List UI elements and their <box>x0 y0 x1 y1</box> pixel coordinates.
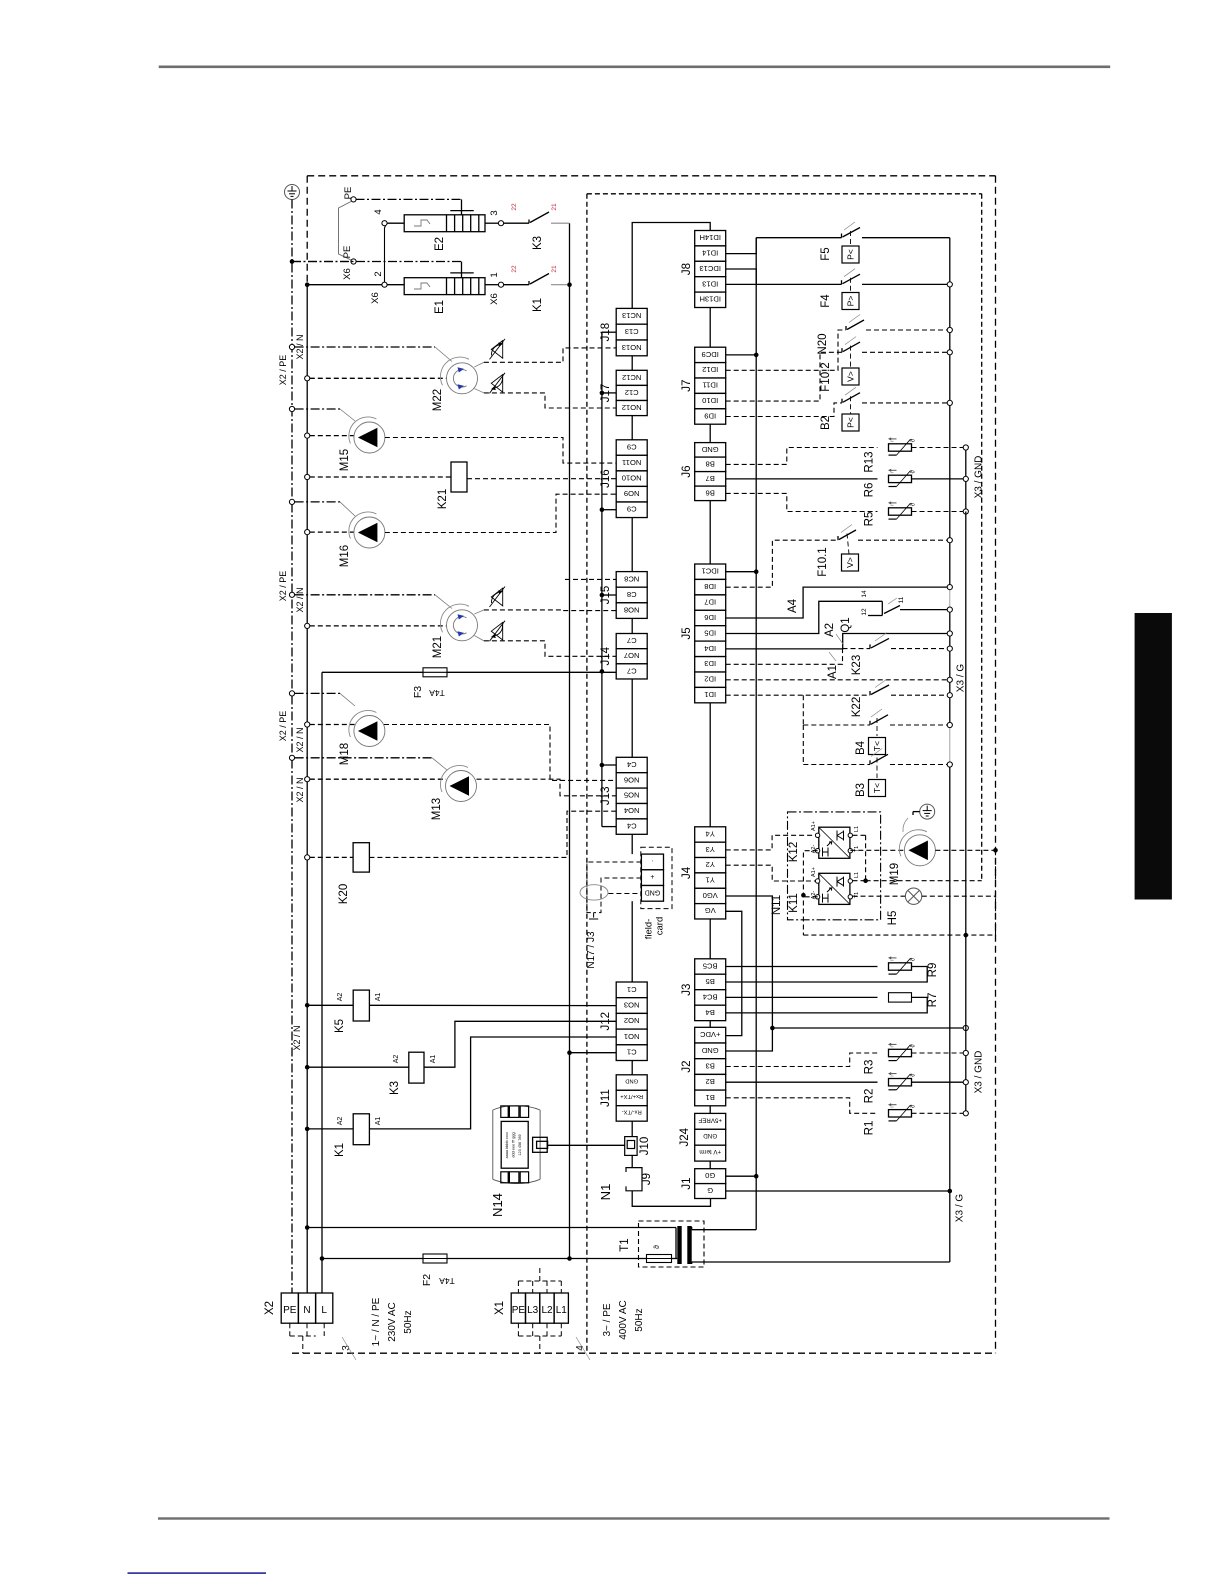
svg-text:ID14: ID14 <box>702 249 718 258</box>
svg-text:J1: J1 <box>681 1178 693 1190</box>
wire G to X3 bus <box>726 1190 950 1192</box>
wire C4 common bottom <box>602 826 616 828</box>
svg-text:E1: E1 <box>434 300 446 314</box>
wire C1 common <box>570 1052 617 1054</box>
wire IDC13 to F4 line <box>726 269 757 284</box>
svg-text:ID3: ID3 <box>704 659 716 668</box>
connector J4 <box>681 827 726 919</box>
svg-text:aaaa bbbb cccc: aaaa bbbb cccc <box>505 1132 509 1159</box>
svg-text:A2: A2 <box>824 623 836 637</box>
svg-text:1~ / N / PE: 1~ / N / PE <box>371 1297 382 1346</box>
wire GND to X3 <box>772 1027 963 1029</box>
wire K1 to NO1 <box>369 1037 616 1129</box>
pump M16 <box>354 517 385 548</box>
svg-text:J8: J8 <box>681 263 693 275</box>
page top rule <box>159 66 1110 69</box>
svg-text:K11: K11 <box>788 893 800 913</box>
svg-text:A2-: A2- <box>811 891 817 900</box>
svg-text:3: 3 <box>489 210 500 215</box>
N branch K20 <box>305 855 310 860</box>
wire flap4 to NO7 <box>484 641 616 657</box>
svg-text:C4: C4 <box>627 822 637 831</box>
svg-text:B2: B2 <box>706 1077 715 1086</box>
svg-text:K3: K3 <box>532 236 544 250</box>
chain J17-J16 <box>631 416 633 440</box>
svg-text:2: 2 <box>373 271 384 276</box>
svg-text:ID13H: ID13H <box>699 295 721 304</box>
svg-text:C7: C7 <box>627 666 637 675</box>
chain J24-J1 <box>709 1161 711 1169</box>
wire L bus via F2 <box>320 1256 325 1261</box>
relay coil K3 <box>305 1065 310 1070</box>
wire M18 to NO6 <box>384 725 616 781</box>
svg-text:C9: C9 <box>627 505 637 514</box>
PE branch to heaters <box>292 261 348 263</box>
PE branch M21 <box>289 592 294 597</box>
chain J11-J10 <box>631 1121 633 1136</box>
svg-text:T1: T1 <box>619 1238 631 1251</box>
svg-text:R1: R1 <box>864 1121 876 1136</box>
svg-text:ID10: ID10 <box>702 396 718 405</box>
X2 drop lines <box>289 1323 291 1336</box>
page bottom rule <box>158 1517 1110 1519</box>
svg-text:L1: L1 <box>854 872 860 878</box>
svg-text:14: 14 <box>861 590 868 598</box>
wire M15 to NO11 <box>385 438 616 464</box>
svg-text:L1: L1 <box>854 826 860 832</box>
sensor R2 <box>726 1081 878 1083</box>
flap damper 2 <box>491 375 502 393</box>
svg-text:J10: J10 <box>639 1137 651 1156</box>
thermostat B3 <box>802 725 804 765</box>
svg-text:M21: M21 <box>432 636 444 658</box>
chain J16-J15 <box>631 518 633 572</box>
wire A4 ID6 to X3 <box>726 587 948 618</box>
pump M18 <box>354 716 385 747</box>
svg-text:K1: K1 <box>334 1143 346 1157</box>
svg-text:123 456 789: 123 456 789 <box>518 1134 522 1155</box>
svg-text:4: 4 <box>575 1345 586 1351</box>
PE bus dash-dot <box>291 200 293 1294</box>
svg-text:A4: A4 <box>787 598 799 613</box>
connector <box>641 854 663 901</box>
wire F2 to T1 <box>447 1258 647 1260</box>
converter K12 <box>819 827 850 858</box>
svg-text:ID14H: ID14H <box>699 233 721 242</box>
svg-text:K5: K5 <box>334 1019 346 1033</box>
svg-text:P>: P> <box>845 296 855 307</box>
N branch M13 <box>305 777 310 782</box>
svg-text:J11: J11 <box>600 1089 612 1107</box>
wire C8 common <box>602 594 616 596</box>
wire F3 to C7 <box>447 671 616 673</box>
stub NC8 <box>565 578 616 580</box>
svg-text:J6: J6 <box>681 466 693 478</box>
svg-text:C13: C13 <box>625 327 639 336</box>
svg-text:A2: A2 <box>393 1055 400 1064</box>
PE branch M13 <box>289 755 294 760</box>
svg-text:T<: T< <box>872 783 882 793</box>
svg-text:A1+: A1+ <box>811 867 817 877</box>
outer dashed enclosure frame <box>307 175 995 177</box>
svg-text:X2 / N: X2 / N <box>295 587 305 612</box>
pressure switch B2 <box>726 403 842 417</box>
wire T1 secondary to G0 riser <box>692 1229 757 1231</box>
svg-text:PE: PE <box>342 246 353 259</box>
svg-text:ID11: ID11 <box>702 381 717 390</box>
flap damper 1 <box>491 341 502 359</box>
svg-text:N1: N1 <box>598 1184 613 1201</box>
svg-text:F5: F5 <box>820 247 832 260</box>
pump M15 <box>354 422 385 453</box>
svg-text:C9: C9 <box>627 442 637 451</box>
sensor R6 <box>726 478 878 480</box>
X3 bus vertical <box>949 238 951 1262</box>
chain J2-J24 <box>709 1106 711 1114</box>
svg-text:K1: K1 <box>532 298 544 312</box>
svg-text:IDC9: IDC9 <box>702 350 719 359</box>
svg-text:P<: P< <box>845 249 855 260</box>
svg-text:NO4: NO4 <box>624 806 640 815</box>
wire T1 secondary to G bus <box>692 1261 950 1263</box>
svg-text:Y4: Y4 <box>706 829 715 838</box>
svg-text:IDC1: IDC1 <box>702 567 719 576</box>
svg-text:VG0: VG0 <box>703 891 718 900</box>
page bottom-left blue line <box>128 1572 267 1574</box>
svg-text:B4: B4 <box>706 1008 715 1017</box>
flow switch N20 <box>726 330 846 370</box>
N branch M15 <box>305 433 310 438</box>
svg-text:L2: L2 <box>541 1305 553 1316</box>
svg-text:A2: A2 <box>337 1117 344 1126</box>
field-card connector <box>641 847 672 908</box>
svg-text:ID13: ID13 <box>702 279 718 288</box>
wire ID14 to F5 <box>726 238 757 254</box>
connector J8 <box>681 231 726 308</box>
svg-text:N11: N11 <box>771 895 783 915</box>
svg-text:L3: L3 <box>527 1305 539 1316</box>
svg-text:M16: M16 <box>339 545 351 567</box>
wire fieldcard GND to shield <box>608 893 641 895</box>
svg-text:A2: A2 <box>337 993 344 1002</box>
svg-text:A1+: A1+ <box>811 821 817 831</box>
svg-text:1: 1 <box>489 272 500 277</box>
svg-text:GND: GND <box>703 1132 717 1139</box>
svg-text:22: 22 <box>511 265 518 273</box>
svg-text:J13: J13 <box>600 787 612 806</box>
svg-text:K22: K22 <box>851 697 863 717</box>
svg-text:ID9: ID9 <box>704 411 716 420</box>
connector J6 <box>681 443 726 501</box>
fuse F2 <box>423 1254 447 1263</box>
relay coil K21 <box>451 462 467 492</box>
svg-text:X6: X6 <box>489 293 500 305</box>
contact K23 from ID3 <box>726 649 843 665</box>
svg-text:B4: B4 <box>855 740 867 755</box>
svg-text:A1: A1 <box>430 1055 437 1064</box>
wire G0 <box>726 1175 757 1177</box>
svg-text:GND: GND <box>625 1077 638 1083</box>
svg-text:B8: B8 <box>706 459 715 468</box>
chain fieldcard-J12 <box>631 901 633 982</box>
svg-text:R9: R9 <box>927 963 939 978</box>
transformer T1 <box>639 1221 705 1267</box>
svg-text:N14: N14 <box>490 1193 505 1217</box>
relay common bus <box>601 332 603 826</box>
svg-text:BC5: BC5 <box>703 961 718 970</box>
pressure switch F5 <box>841 234 843 238</box>
flap damper 4 <box>491 622 502 640</box>
GND riser VG0 to J2 <box>726 896 773 1051</box>
svg-text:Q1: Q1 <box>840 617 852 632</box>
wire M16 to NO9 <box>385 494 616 532</box>
X3/GND upper terminals <box>965 448 967 512</box>
contact K1 <box>485 284 498 286</box>
PE branch M15 <box>289 406 294 411</box>
wire K5 to NO3 <box>369 1004 616 1006</box>
svg-text:F10.1: F10.1 <box>817 547 829 576</box>
connector J9 <box>626 1168 642 1191</box>
svg-text:K21: K21 <box>437 489 449 509</box>
svg-text:X2 / N: X2 / N <box>295 727 305 752</box>
wire K12 to M19 <box>850 849 904 851</box>
connector J16 <box>600 440 647 518</box>
svg-text:M15: M15 <box>339 449 351 471</box>
PE branch M18 <box>289 691 294 696</box>
PE earth symbol <box>285 185 300 200</box>
contact K3 <box>485 222 498 224</box>
N branch M18 <box>305 722 310 727</box>
fan M21 <box>447 610 478 641</box>
wire flap2 to NO12 <box>484 393 616 408</box>
auxiliary contact Q1 <box>726 601 883 633</box>
wire IDC1 to G0 riser <box>726 571 757 573</box>
wire N bus to X6:2 <box>307 284 382 286</box>
svg-text:PE: PE <box>512 1305 526 1316</box>
svg-text:·: · <box>651 857 653 864</box>
converter K11 <box>819 873 850 904</box>
wire ID2 to X3 <box>726 679 948 681</box>
svg-text:C12: C12 <box>625 388 639 397</box>
PE branch M16 <box>289 499 294 504</box>
svg-text:G: G <box>707 1186 713 1195</box>
relay coil K1 <box>305 1127 310 1132</box>
svg-text:PE: PE <box>343 187 354 200</box>
svg-text:M19: M19 <box>889 863 901 885</box>
wire K20 to NO4 <box>369 811 616 857</box>
svg-text:230V AC: 230V AC <box>387 1302 398 1341</box>
svg-text:C4: C4 <box>627 760 637 769</box>
svg-text:B6: B6 <box>706 488 715 497</box>
pressure switch F4 <box>841 280 843 284</box>
N branch M21 <box>305 623 310 628</box>
svg-text:M13: M13 <box>431 798 443 820</box>
sensor R5 <box>726 493 878 511</box>
svg-text:VG: VG <box>705 906 716 915</box>
wire flap3 to NO8 <box>484 609 616 612</box>
svg-text:card: card <box>655 917 666 935</box>
svg-text:V>: V> <box>845 371 855 382</box>
svg-text:ID1: ID1 <box>704 690 716 699</box>
svg-text:J7: J7 <box>681 380 693 392</box>
svg-text:C8: C8 <box>627 590 637 599</box>
return riser at frame <box>995 850 997 935</box>
svg-text:NO6: NO6 <box>624 775 640 784</box>
svg-text:ID5: ID5 <box>704 628 716 637</box>
wire ID13 to F4 <box>726 283 842 285</box>
svg-text:X2 / PE: X2 / PE <box>278 571 288 602</box>
pump M19 <box>904 835 935 866</box>
wire X6:2 to X6:4 <box>385 226 386 283</box>
svg-text:J2: J2 <box>681 1060 693 1072</box>
wire K21 to NO10 <box>467 478 616 480</box>
svg-text:X1: X1 <box>494 1301 506 1315</box>
chain J4-J3 <box>709 919 711 959</box>
svg-text:21: 21 <box>551 265 558 273</box>
chain NC13 to ID14H <box>632 223 710 309</box>
chain J3-J2 <box>709 1021 711 1028</box>
wire flap1 to NO13 <box>484 348 616 362</box>
module boundary N11 <box>788 812 881 920</box>
fuse F3 <box>423 668 447 677</box>
sensor R9 <box>726 966 878 968</box>
svg-text:C1: C1 <box>627 985 637 994</box>
svg-text:J5: J5 <box>681 627 693 639</box>
wire K3 to NO2 <box>424 1021 616 1067</box>
N branch M22 <box>305 376 310 381</box>
svg-text:T1: T1 <box>854 846 860 852</box>
svg-text:ID7: ID7 <box>704 597 716 606</box>
svg-text:X6: X6 <box>370 292 381 304</box>
svg-text:A1: A1 <box>375 993 382 1002</box>
chain J6-J5 <box>709 501 711 564</box>
heater E1 <box>292 261 462 263</box>
svg-text:NO11: NO11 <box>622 458 641 467</box>
shield oval <box>580 885 608 900</box>
sensor R7 <box>726 996 878 998</box>
terminal block X2 <box>264 1293 333 1323</box>
svg-text:J12: J12 <box>600 1012 612 1031</box>
svg-text:J14: J14 <box>600 646 612 665</box>
svg-text:ID8: ID8 <box>704 582 716 591</box>
chain J12-J11 <box>631 1061 633 1075</box>
svg-text:N20: N20 <box>817 333 829 354</box>
svg-text:M22: M22 <box>432 389 444 411</box>
svg-text:J4: J4 <box>681 866 693 879</box>
sensor R3 <box>726 1053 878 1067</box>
svg-text:L1: L1 <box>556 1305 568 1316</box>
connector J15 <box>600 572 647 619</box>
terminal block X1 <box>494 1293 568 1323</box>
svg-text:F10.2: F10.2 <box>820 362 832 391</box>
connector J13 <box>600 757 647 834</box>
chain J13-fieldcard <box>631 834 633 854</box>
svg-text:ID6: ID6 <box>704 613 716 622</box>
connector J12 <box>600 982 647 1061</box>
svg-text:F4: F4 <box>820 294 832 308</box>
svg-text:P<: P< <box>845 417 855 428</box>
lamp H5 <box>853 895 906 897</box>
svg-text:ddd eee fff ggg: ddd eee fff ggg <box>512 1132 516 1157</box>
wires fieldcard shield pair <box>587 862 642 913</box>
E-feed riser <box>569 223 571 1258</box>
svg-text:22: 22 <box>511 203 518 211</box>
connector J1 <box>681 1169 726 1199</box>
svg-text:Y2: Y2 <box>706 860 715 869</box>
wire L bus to F3 <box>322 671 423 673</box>
chain J15-J14 <box>631 618 633 633</box>
svg-text:B3: B3 <box>855 783 867 797</box>
svg-text:X2 / PE: X2 / PE <box>278 711 288 742</box>
pump M13 <box>446 771 477 802</box>
wire Y3 to K12 <box>726 835 818 850</box>
VG riser to +VDC <box>726 911 742 1035</box>
chain J18-J17 <box>631 356 633 371</box>
relay coil K5 <box>305 1003 310 1008</box>
svg-text:Rx-/TX-: Rx-/TX- <box>622 1108 642 1114</box>
svg-text:V>: V> <box>845 557 855 568</box>
GND bus link <box>965 512 967 1029</box>
svg-text:BC4: BC4 <box>703 992 718 1001</box>
svg-text:L: L <box>321 1305 327 1316</box>
svg-text:Rx+/TX+: Rx+/TX+ <box>620 1093 643 1099</box>
svg-text:NO2: NO2 <box>624 1016 640 1025</box>
svg-text:B1: B1 <box>706 1093 715 1102</box>
G0 riser bus <box>755 238 757 1230</box>
wire C12 common <box>602 392 616 394</box>
wire J9 to J1 <box>632 1191 710 1207</box>
svg-text:F3: F3 <box>412 686 424 698</box>
wire IDC9 to G0 riser <box>726 354 757 356</box>
wire M19 to return <box>935 849 995 851</box>
svg-text:X3 / GND: X3 / GND <box>974 1051 985 1094</box>
svg-text:B2: B2 <box>820 416 832 430</box>
svg-text:NO1: NO1 <box>624 1032 640 1041</box>
svg-text:M18: M18 <box>339 743 351 765</box>
svg-text:+: + <box>650 873 654 880</box>
L1 bus K12 to K11 <box>853 834 866 836</box>
svg-text:field-: field- <box>644 919 655 940</box>
wire Y2 to K11 <box>726 865 818 881</box>
svg-text:PE: PE <box>283 1305 297 1316</box>
svg-text:F2: F2 <box>421 1274 433 1286</box>
flap damper 3 <box>491 588 502 606</box>
svg-text:G0: G0 <box>705 1171 715 1180</box>
wire A2 ID4 to X3 <box>726 634 948 649</box>
PE branch M22 <box>289 344 294 349</box>
svg-text:NO12: NO12 <box>622 403 642 412</box>
svg-text:GND: GND <box>701 445 718 454</box>
flow switch F10.2 <box>726 352 842 401</box>
svg-text:J16: J16 <box>600 469 612 488</box>
svg-text:H5: H5 <box>887 911 899 926</box>
svg-text:GND: GND <box>645 888 661 895</box>
svg-text:50Hz: 50Hz <box>634 1308 645 1331</box>
svg-text:J9: J9 <box>641 1173 653 1185</box>
svg-text:NO5: NO5 <box>624 791 640 800</box>
connector J17 <box>600 370 647 415</box>
fan M22 <box>447 363 478 394</box>
svg-text:K12: K12 <box>788 842 800 862</box>
svg-text:B5: B5 <box>706 977 715 986</box>
svg-text:X3 / G: X3 / G <box>956 664 967 693</box>
connector J14 <box>600 634 647 679</box>
heater E2 <box>356 198 462 200</box>
connector J7 <box>681 347 726 424</box>
svg-text:ID4: ID4 <box>704 644 716 653</box>
svg-text:A1: A1 <box>827 665 839 679</box>
wire C4 common top <box>602 764 616 766</box>
